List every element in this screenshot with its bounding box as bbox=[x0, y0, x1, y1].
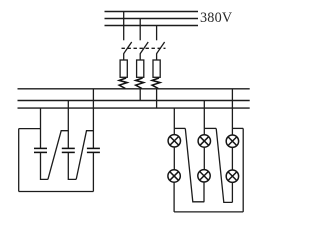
wire lamp A bottom lead bbox=[173, 182, 175, 212]
wire lamp branch A drop from bus line 3 bbox=[173, 108, 175, 128]
wire lamp B mid link bbox=[203, 147, 205, 170]
wire switch 3 to fuse 3 bbox=[156, 53, 158, 60]
wire lamp branch C drop from bus line 1 bbox=[231, 89, 233, 135]
wire lamp branch A top jog bbox=[174, 127, 185, 129]
thermal element zigzag 2 bbox=[136, 78, 144, 89]
wire diagonal phase A to column B bottom bbox=[185, 128, 204, 201]
wire lamp C mid link bbox=[231, 147, 233, 170]
wire diagonal phase B to column C bottom bbox=[216, 128, 232, 202]
wire capacitor 3 lower lead to box corner bbox=[92, 153, 94, 192]
thermal element zigzag 3 bbox=[152, 78, 160, 89]
lamp EL5 bbox=[198, 170, 210, 182]
switch QS blade pole 1 bbox=[124, 42, 132, 54]
lamp EL3 bbox=[226, 135, 238, 147]
wire capacitor branch 1 drop from bus line 3 bbox=[40, 108, 42, 148]
svg-text:380V: 380V bbox=[200, 10, 233, 26]
wire lamp bank bottom return to column A bbox=[174, 211, 243, 213]
wire lamp B bottom lead bbox=[203, 182, 205, 202]
capacitor C3 bbox=[87, 148, 100, 152]
lamp EL1 bbox=[168, 135, 180, 147]
fuse FU2 bbox=[137, 60, 144, 77]
wire lower bus line 2 bbox=[18, 100, 250, 102]
lamp EL4 bbox=[168, 170, 180, 182]
fuse FU3 bbox=[153, 60, 160, 77]
wire lamp A mid link bbox=[173, 147, 175, 170]
wire lower bus line 3 bbox=[18, 107, 250, 109]
wire lamp C bottom lead bbox=[231, 182, 233, 202]
wire diagonal link cap2 to cap3 bbox=[76, 131, 93, 180]
wire capacitor 2 lower lead bbox=[68, 153, 76, 180]
wire diagonal link cap1 to cap2 bbox=[48, 131, 68, 180]
wire lower bus line 1 bbox=[18, 88, 250, 90]
wire lamp branch B drop from bus line 2 bbox=[203, 101, 205, 129]
wire switch 2 to fuse 2 bbox=[139, 53, 141, 60]
wire drop from L1 to switch pole 1 bbox=[123, 12, 125, 41]
wire drop from L2 to switch pole 2 bbox=[139, 19, 141, 41]
wire cap-bank return bottom segment bbox=[19, 191, 94, 193]
wire top bus line L2 bbox=[105, 18, 199, 20]
switch QS gang dashed link bbox=[122, 47, 166, 49]
wire lamp A1 top stub bbox=[173, 128, 175, 135]
wire drop from L3 to switch pole 3 bbox=[156, 26, 158, 41]
wire top bus line L1 bbox=[105, 11, 199, 13]
wire lamp B1 top stub bbox=[203, 128, 205, 135]
wire capacitor branch 2 drop from bus line 2 bbox=[67, 101, 69, 149]
wire cap-bank return top segment bbox=[19, 128, 41, 130]
wire capacitor branch 3 drop from bus line 1 bbox=[92, 89, 94, 148]
wire lamp branch C top jog bbox=[232, 127, 243, 129]
thermal element zigzag 1 bbox=[119, 78, 127, 89]
wire top bus line L3 bbox=[105, 25, 199, 27]
switch QS blade pole 2 bbox=[140, 42, 148, 54]
capacitor C2 bbox=[62, 148, 75, 152]
switch QS blade pole 3 bbox=[157, 42, 165, 54]
capacitor C1 bbox=[34, 148, 47, 152]
wire fuse 3 tail to bus line 3 bbox=[156, 89, 158, 108]
wire fuse 2 tail to bus line 2 bbox=[139, 89, 141, 101]
fuse FU1 bbox=[120, 60, 127, 77]
lamp EL2 bbox=[198, 135, 210, 147]
wire capacitor 1 lower lead bbox=[41, 153, 48, 180]
wire phase C right side return bbox=[242, 128, 244, 212]
wire switch 1 to fuse 1 bbox=[123, 53, 125, 60]
wire lamp branch B top jog bbox=[204, 127, 216, 129]
lamp EL6 bbox=[226, 170, 238, 182]
wire cap-bank return left side bbox=[18, 129, 20, 192]
